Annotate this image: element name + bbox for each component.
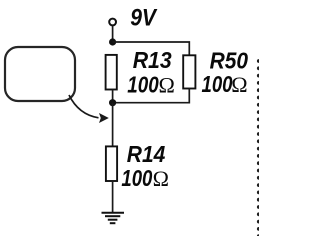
wire terminal to top node (112, 25, 114, 42)
svg-text:R50: R50 (210, 47, 249, 73)
callout bubble (5, 47, 75, 101)
svg-text:100: 100 (121, 165, 152, 191)
wire R14 to ground (112, 181, 114, 213)
svg-text:R14: R14 (127, 141, 166, 167)
node top junction dot (109, 38, 116, 45)
resistor R13 body (106, 55, 117, 90)
svg-text:Ω: Ω (153, 166, 169, 191)
svg-text:100: 100 (202, 71, 233, 97)
node bottom junction dot (109, 99, 116, 106)
wire R50 bottom to node (113, 89, 190, 103)
wire node to R14 (112, 103, 114, 147)
wire top horizontal to R50 branch (113, 42, 190, 55)
resistor R14 body (106, 146, 117, 181)
resistor R50 body (183, 55, 195, 88)
svg-text:Ω: Ω (231, 72, 247, 97)
callout arrowhead (99, 113, 109, 123)
svg-text:R13: R13 (133, 47, 172, 73)
callout arrow tail (69, 95, 99, 118)
ground symbol (102, 213, 125, 224)
wire R13 bottom to node (112, 90, 114, 104)
svg-text:Ω: Ω (159, 73, 175, 98)
svg-text:9V: 9V (130, 5, 158, 32)
svg-text:100: 100 (127, 72, 159, 98)
dotted selection border right edge (257, 59, 261, 238)
terminal circle 9V (109, 19, 116, 26)
